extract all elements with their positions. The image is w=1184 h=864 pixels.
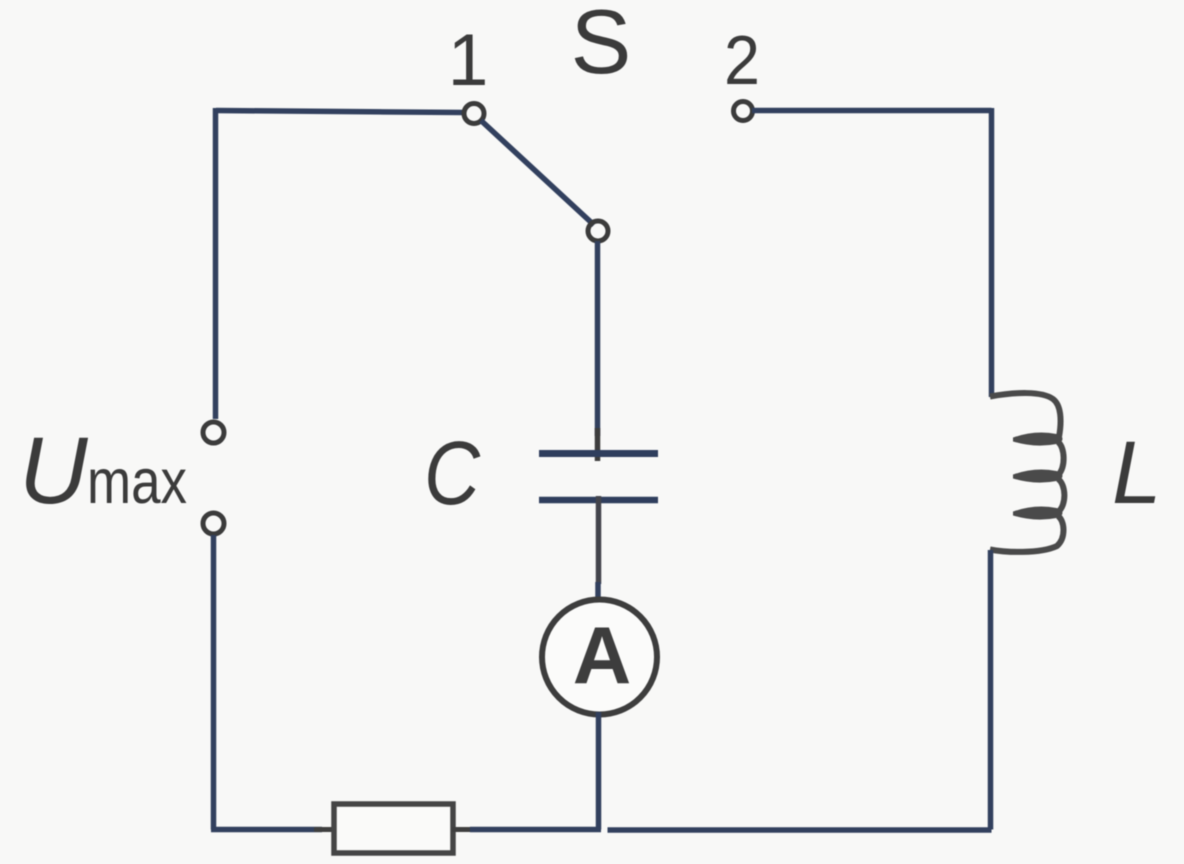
- wire right vertical upper: [989, 108, 995, 397]
- wire short navy above ammeter: [595, 582, 601, 601]
- wire top-right horizontal: [752, 108, 992, 114]
- wire left vertical upper: [213, 108, 219, 419]
- wire bottom left: [211, 827, 322, 833]
- resistor: [334, 804, 453, 853]
- svg-text:max: max: [87, 447, 187, 517]
- wire resistor left stub: [314, 827, 336, 832]
- wire left vertical lower: [211, 535, 217, 830]
- svg-text:C: C: [424, 424, 481, 524]
- wire bottom right: [470, 827, 601, 833]
- inductor L bottom lead: [990, 516, 1064, 552]
- inductor L loop 2: [1015, 472, 1061, 481]
- wire right vertical lower: [988, 550, 994, 830]
- ammeter A: [542, 600, 657, 715]
- wire capacitor to ammeter: [596, 496, 602, 584]
- wire capacitor top lead overshoot: [595, 428, 601, 461]
- svg-text:S: S: [571, 0, 632, 93]
- inductor L top lead: [990, 393, 1061, 437]
- switch S contact 2: [734, 102, 753, 121]
- inductor L loop 1: [1015, 435, 1061, 444]
- inductor L arc 1-2: [1058, 442, 1064, 475]
- wire resistor right stub: [452, 827, 478, 832]
- wire middle vertical (pivot to capacitor): [595, 241, 601, 436]
- node upper terminal of Umax: [203, 422, 224, 443]
- inductor L loop 3: [1015, 509, 1061, 518]
- svg-text:U: U: [19, 418, 89, 524]
- svg-text:2: 2: [724, 21, 760, 99]
- wire top-left horizontal: [216, 111, 464, 113]
- switch S contact 1: [464, 104, 484, 124]
- node lower terminal of Umax: [203, 513, 224, 534]
- svg-text:1: 1: [448, 20, 489, 101]
- switch S blade: [481, 121, 594, 226]
- capacitor C bottom plate: [539, 497, 658, 504]
- inductor L arc 2-3: [1058, 479, 1064, 512]
- svg-text:A: A: [573, 611, 632, 701]
- svg-text:L: L: [1112, 422, 1162, 522]
- wire ammeter to bottom: [596, 712, 602, 830]
- capacitor C top plate: [539, 450, 658, 457]
- switch S pivot: [588, 221, 608, 241]
- wire bottom right after junction: [608, 827, 992, 833]
